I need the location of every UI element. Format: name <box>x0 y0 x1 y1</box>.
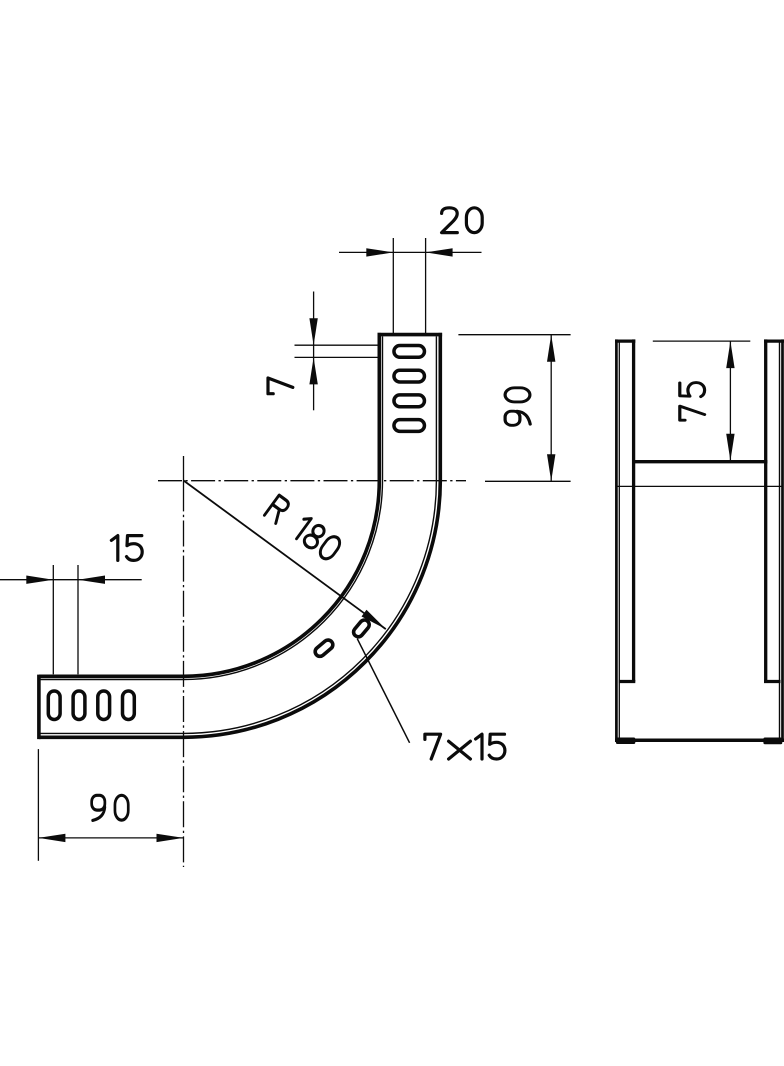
dim 20 arrow right <box>426 248 453 256</box>
dim 15 dimension line <box>0 579 142 581</box>
top arm slot 2 <box>394 370 425 382</box>
bend inner wall flange (thin) <box>41 336 383 679</box>
leader line 7x15 <box>357 639 409 743</box>
top arm end cap <box>378 333 443 337</box>
top arm slot 3 <box>394 395 425 407</box>
dim 20 dimension line <box>339 251 482 253</box>
dim 7 extension line top <box>295 344 380 346</box>
vertical centerline solid start <box>183 456 185 511</box>
dim 7 arrow line <box>313 292 315 411</box>
right view bottom left pad <box>616 738 635 745</box>
radius arrowhead <box>362 610 386 629</box>
bend inner wall (thick) <box>39 333 379 676</box>
dim 90b arrow right <box>157 834 184 842</box>
bend outer wall (thick) <box>39 333 440 737</box>
right view right outer flange (thin) <box>779 341 781 740</box>
top arm slot 4 <box>394 420 425 432</box>
top arm slot 1 <box>394 346 425 358</box>
dim 7 extension line bottom <box>295 356 380 358</box>
dim 90r extension line bottom <box>485 480 571 482</box>
right view bottom closure <box>615 739 784 743</box>
dim 75 arrow up <box>726 341 734 368</box>
dim 90b extension line left <box>37 749 39 861</box>
dim 90r text <box>505 388 530 425</box>
bend outer wall flange (thin) <box>41 336 437 733</box>
label 7x15 <box>425 734 505 759</box>
dim 20 extension line left <box>392 238 394 333</box>
dim 20 arrow left <box>366 248 393 256</box>
right view right outer wall (thick) <box>781 339 784 740</box>
arc slot B (7x15) <box>352 618 371 639</box>
dim 7 text <box>268 378 293 394</box>
dim 75 text <box>680 383 705 421</box>
dim 75 dimension line <box>729 341 731 461</box>
right view bottom rung (thick) <box>632 460 767 463</box>
horizontal centerline <box>158 480 466 482</box>
right view right wall foot <box>764 680 781 683</box>
dim 90b text <box>92 795 129 820</box>
right view left outer wall (thick) <box>615 339 618 740</box>
dim 15 text <box>111 536 142 561</box>
right view bottom right pad <box>763 738 782 745</box>
dim 7 arrow up <box>309 357 317 384</box>
bottom arm slot 2 <box>73 691 85 720</box>
dim 15 extension line left <box>52 565 54 674</box>
right view left wall foot <box>619 680 635 683</box>
right view left inner wall (thick) <box>632 339 635 681</box>
right view left outer flange (thin) <box>618 341 620 740</box>
dim 75 extension line top <box>653 340 751 342</box>
dim 90b dimension line <box>38 837 183 839</box>
label R 180 <box>264 495 342 562</box>
arc slot A (7x15) <box>313 638 335 658</box>
dim 90r arrow down <box>547 454 555 481</box>
dim 15 extension line right <box>77 565 79 674</box>
dim 15 arrow left <box>78 576 105 584</box>
right view mid thin line <box>616 485 783 487</box>
dim 90b arrow left <box>38 834 65 842</box>
radius line R180 <box>184 481 386 630</box>
vertical centerline <box>183 511 185 867</box>
bottom arm end cap <box>37 675 41 740</box>
dim 75 arrow down <box>726 434 734 461</box>
dim 90r dimension line <box>550 335 552 482</box>
right view right inner wall (thick) <box>764 339 767 681</box>
bottom arm slot 3 <box>98 691 110 720</box>
right view left top cap <box>615 339 635 342</box>
dim 20 text <box>442 208 483 233</box>
dim 90r arrow up <box>547 335 555 362</box>
bottom arm slot 4 <box>123 691 135 720</box>
dim 20 extension line right <box>425 238 427 333</box>
dim 15 arrow right <box>26 576 53 584</box>
bottom arm slot 1 <box>48 691 60 720</box>
dim 90r extension line top <box>458 334 570 336</box>
dim 7 arrow down <box>309 318 317 345</box>
right view right top cap <box>764 339 784 342</box>
